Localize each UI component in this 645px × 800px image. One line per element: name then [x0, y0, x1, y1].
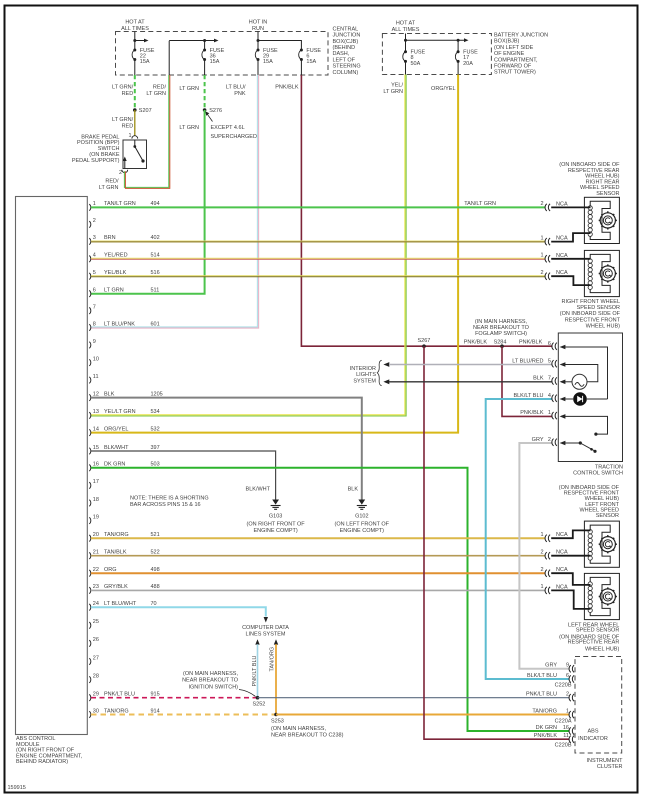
battery junction box BJB (dashed) [382, 34, 491, 75]
traction lamp symbol [572, 374, 587, 389]
svg-text:4: 4 [548, 393, 551, 399]
svg-text:COMPUTER DATA: COMPUTER DATA [242, 625, 289, 631]
svg-text:LT GRN/: LT GRN/ [112, 117, 134, 123]
svg-text:21: 21 [93, 550, 99, 556]
wire TAN/BLK 522 (ABS pin 21 to left front sensor pin 2) [91, 555, 546, 557]
wire LT BLU/WHT 70 (ABS pin 24 to computer data lines) [91, 607, 268, 622]
svg-text:(ON MAIN HARNESS,: (ON MAIN HARNESS, [271, 726, 326, 732]
left rear sensor label [559, 623, 620, 653]
svg-text:STRUT TOWER): STRUT TOWER) [494, 70, 536, 76]
arrow up PNK/LT BLU riser to computer data lines [252, 639, 260, 698]
svg-text:14: 14 [93, 426, 99, 432]
svg-text:20A: 20A [463, 61, 473, 67]
svg-text:ENGINE COMPT): ENGINE COMPT) [253, 528, 297, 534]
svg-text:15A: 15A [140, 59, 150, 65]
svg-text:9: 9 [93, 339, 96, 345]
label HOT IN RUN [249, 20, 268, 32]
left front sensor pin 2 connector and tail [540, 550, 590, 560]
BPP pin 1 connector [128, 133, 137, 139]
svg-text:GRY: GRY [532, 437, 544, 443]
wire TAN/ORG 914 dashed (ABS pin 30 to S253) [91, 714, 275, 716]
svg-text:S267: S267 [418, 338, 431, 344]
svg-text:ORG/YEL: ORG/YEL [431, 86, 455, 92]
svg-text:6: 6 [548, 341, 551, 347]
wire BLK/WHT 397 (ABS pin 15 to ground G103) [91, 451, 276, 500]
svg-text:FOGLAMP SWITCH): FOGLAMP SWITCH) [475, 331, 527, 337]
svg-text:3: 3 [93, 235, 96, 241]
svg-text:1: 1 [566, 708, 569, 714]
svg-text:13: 13 [93, 409, 99, 415]
svg-text:PNK/LT BLU: PNK/LT BLU [104, 692, 135, 698]
svg-text:RED/: RED/ [105, 178, 119, 184]
computer data lines system label [242, 625, 289, 637]
svg-text:RESPECTIVE REAR: RESPECTIVE REAR [568, 639, 620, 645]
svg-text:S276: S276 [209, 108, 222, 114]
splice S252 [253, 696, 266, 707]
wire ORG/YEL (fuse 17 to ABS pin 14) [91, 75, 458, 433]
svg-text:ALL TIMES: ALL TIMES [392, 27, 420, 33]
ABS pin 14 [89, 426, 159, 436]
svg-text:DK GRN: DK GRN [536, 725, 557, 731]
left rear sensor pin 2 connector and tail [540, 567, 590, 585]
instrument cluster dashed box [575, 657, 622, 754]
ABS pin 11 [89, 374, 98, 384]
right front sensor label [560, 299, 621, 330]
svg-text:YEL/RED: YEL/RED [104, 253, 128, 259]
cluster pin 6 BLK/LT BLU connector [527, 673, 574, 689]
svg-text:BLK: BLK [533, 376, 544, 382]
svg-text:BLK: BLK [104, 391, 115, 397]
svg-text:LT BLU/WHT: LT BLU/WHT [104, 601, 137, 607]
svg-text:YEL/LT GRN: YEL/LT GRN [104, 409, 136, 415]
svg-text:PNK/BLK: PNK/BLK [275, 85, 299, 91]
ABS pin 3 [89, 235, 159, 245]
svg-text:1: 1 [93, 201, 96, 207]
svg-text:SENSOR: SENSOR [596, 513, 619, 519]
traction pin 5 connector [512, 358, 565, 367]
wire LT BLU/PNK (fuse 29 to ABS pin 8) [91, 75, 259, 328]
ABS pin 4 [89, 253, 159, 263]
svg-text:S253: S253 [271, 719, 284, 725]
svg-text:27: 27 [93, 655, 99, 661]
svg-text:PNK/BLK: PNK/BLK [520, 410, 544, 416]
svg-text:PNK: PNK [234, 91, 246, 97]
right rear sensor label [559, 162, 620, 197]
ABS pin 8 [89, 321, 159, 331]
traction LED indicator symbol [573, 392, 587, 406]
svg-text:ENGINE COMPT): ENGINE COMPT) [340, 528, 384, 534]
ABS pin 16 [89, 462, 159, 472]
svg-text:HOT AT: HOT AT [396, 21, 416, 27]
svg-text:5: 5 [93, 270, 96, 276]
svg-text:COLUMN): COLUMN) [333, 70, 359, 76]
svg-text:1: 1 [548, 410, 551, 416]
ABS pin 7 [89, 305, 96, 315]
svg-text:BATTERY JUNCTION: BATTERY JUNCTION [494, 33, 548, 39]
traction pin 7 connector [533, 376, 565, 385]
left rear wheel speed sensor box [584, 573, 619, 619]
ABS pin 29 [89, 692, 159, 702]
svg-text:15A: 15A [306, 59, 316, 65]
svg-text:532: 532 [151, 426, 160, 432]
svg-text:1: 1 [128, 133, 131, 139]
diagram id 159915 [8, 785, 26, 791]
svg-text:LT GRN: LT GRN [179, 125, 199, 131]
svg-text:11: 11 [93, 374, 99, 380]
svg-text:1: 1 [540, 235, 543, 241]
svg-text:LT BLU/PNK: LT BLU/PNK [104, 321, 135, 327]
svg-text:(ON LEFT FRONT OF: (ON LEFT FRONT OF [335, 522, 390, 528]
interior lights system label with brace [350, 360, 382, 386]
svg-text:NOTE: THERE IS A SHORTING: NOTE: THERE IS A SHORTING [130, 496, 209, 502]
svg-text:(ON RIGHT FRONT OF: (ON RIGHT FRONT OF [247, 522, 306, 528]
svg-text:C220A: C220A [555, 719, 572, 725]
svg-text:2: 2 [548, 437, 551, 443]
ground G103 [247, 500, 306, 534]
ABS pin 17 [89, 479, 99, 489]
cluster pin 11 PNK/BLK connector [534, 733, 574, 749]
CJB label text [333, 26, 361, 75]
traction pin 6 connector [548, 341, 566, 350]
splice S284 on PNK/BLK [464, 339, 543, 348]
wire BLK/LT BLU (traction pin 4 to instrument cluster pin 6) [486, 399, 570, 679]
svg-text:STEERING: STEERING [333, 64, 361, 70]
svg-text:LEFT OF: LEFT OF [333, 57, 356, 63]
svg-text:26: 26 [93, 637, 99, 643]
svg-text:12: 12 [93, 391, 99, 397]
svg-text:RESPECTIVE FRONT: RESPECTIVE FRONT [565, 317, 621, 323]
wire LT GRN/RED dashed (fuse 22 to S207) [112, 75, 135, 109]
wire TAN/LT GRN 494 (ABS pin 1 to right rear sensor pin 2) [91, 201, 546, 207]
svg-text:5: 5 [548, 358, 551, 364]
svg-text:DK GRN: DK GRN [104, 462, 125, 468]
svg-text:70: 70 [151, 601, 157, 607]
wire TAN/ORG (S253 to instrument cluster pin 1) [276, 714, 570, 716]
svg-text:BOX(CJB): BOX(CJB) [333, 39, 359, 45]
svg-text:2: 2 [540, 201, 543, 207]
svg-text:LT GRN: LT GRN [99, 185, 119, 191]
svg-text:RED: RED [122, 124, 134, 130]
wire LT BLU/RED (traction pin 5 to interior lights, arrow) [383, 362, 552, 367]
svg-text:BRN: BRN [104, 235, 116, 241]
ABS pin 2 [89, 218, 96, 228]
svg-text:BLK/LT BLU: BLK/LT BLU [513, 393, 543, 399]
svg-text:16: 16 [93, 462, 99, 468]
left front wheel speed sensor label [559, 485, 620, 519]
svg-text:402: 402 [151, 235, 160, 241]
ABS pin 27 [89, 655, 99, 665]
svg-text:601: 601 [151, 321, 160, 327]
svg-text:18: 18 [93, 497, 99, 503]
svg-text:COMPARTMENT,: COMPARTMENT, [494, 57, 538, 63]
svg-text:TAN/ORG: TAN/ORG [104, 708, 129, 714]
svg-text:TAN/ORG: TAN/ORG [532, 708, 557, 714]
svg-text:PNK/LT BLU: PNK/LT BLU [252, 655, 258, 686]
wire PNK/BLK (S267 down to instrument cluster pin 11) [424, 346, 570, 739]
svg-text:TAN/ORG: TAN/ORG [104, 532, 129, 538]
svg-text:6: 6 [566, 673, 569, 679]
cluster pin 9 GRY connector [545, 663, 574, 673]
svg-text:ABS: ABS [587, 729, 598, 735]
wire BLK 1205 (ABS pin 12 to ground G102) [91, 398, 362, 500]
svg-text:LINES SYSTEM: LINES SYSTEM [245, 632, 285, 638]
svg-text:SPEED SENSOR: SPEED SENSOR [577, 305, 620, 311]
svg-text:OF ENGINE: OF ENGINE [494, 51, 525, 57]
wire ORG 498 (ABS pin 22 to left rear sensor pin 2) [91, 572, 546, 574]
BJB label text [494, 33, 548, 76]
svg-text:RED/: RED/ [153, 85, 167, 91]
svg-text:534: 534 [151, 409, 160, 415]
svg-text:488: 488 [151, 584, 160, 590]
traction pin 1 connector [520, 410, 565, 419]
svg-text:INDICATOR: INDICATOR [578, 736, 608, 742]
label on main harness near breakout to ignition switch with leader [182, 671, 255, 697]
svg-text:WHEEL HUB): WHEEL HUB) [585, 647, 619, 653]
svg-text:915: 915 [151, 692, 160, 698]
svg-text:CONTROL SWITCH: CONTROL SWITCH [573, 471, 623, 477]
ABS pin 21 [89, 550, 159, 560]
fuse 17 20A [455, 50, 478, 75]
svg-text:S207: S207 [139, 108, 152, 114]
svg-text:(ON MAIN HARNESS,: (ON MAIN HARNESS, [183, 671, 238, 677]
ABS pin 23 [89, 584, 159, 594]
svg-text:LT GRN: LT GRN [146, 91, 166, 97]
wire LT GRN/RED (S207 to BPP pin 1) [112, 110, 135, 136]
wire BLK (traction pin 7 to interior lights, arrow) [383, 379, 552, 384]
svg-text:8: 8 [93, 321, 96, 327]
splice S253 [271, 713, 344, 739]
ABS pin 25 [89, 619, 99, 629]
svg-text:1205: 1205 [151, 391, 163, 397]
svg-text:25: 25 [93, 619, 99, 625]
svg-text:19: 19 [93, 514, 99, 520]
arrow up TAN/ORG riser to computer data lines [270, 639, 279, 714]
svg-text:511: 511 [151, 288, 160, 294]
bus wire hot-at-all-times with arrow (fuse 22 feed) [133, 32, 148, 50]
ABS pin 28 [89, 673, 99, 683]
svg-text:TAN/LT GRN: TAN/LT GRN [104, 201, 136, 207]
ABS pin 24 [89, 601, 156, 611]
svg-text:PNK/BLK: PNK/BLK [534, 733, 558, 739]
svg-text:30: 30 [93, 708, 99, 714]
svg-text:4: 4 [93, 253, 96, 259]
svg-text:LT BLU/RED: LT BLU/RED [512, 358, 543, 364]
svg-text:TAN/BLK: TAN/BLK [104, 550, 127, 556]
wire YEL/LT GRN (fuse 8 to ABS pin 13) [91, 75, 406, 417]
svg-text:24: 24 [93, 601, 99, 607]
svg-text:SYSTEM: SYSTEM [353, 378, 376, 384]
traction internal wiring [561, 347, 608, 443]
BPP pin 2 connector [119, 170, 128, 176]
svg-text:17: 17 [93, 479, 99, 485]
svg-text:(IN MAIN HARNESS,: (IN MAIN HARNESS, [475, 319, 528, 325]
svg-text:BLK/WHT: BLK/WHT [104, 445, 129, 451]
svg-text:JUNCTION: JUNCTION [333, 33, 361, 39]
ABS control module label [16, 736, 83, 765]
svg-text:SPEED SENSOR: SPEED SENSOR [576, 628, 619, 634]
svg-text:159915: 159915 [8, 785, 26, 791]
svg-text:2: 2 [566, 691, 569, 697]
svg-text:1: 1 [540, 253, 543, 259]
svg-text:TAN/LT GRN: TAN/LT GRN [464, 201, 496, 207]
fuse 29 15A [255, 48, 278, 75]
wire YEL/BLK 516 (ABS pin 5 to right front sensor pin 2) [91, 276, 546, 277]
svg-text:ALL TIMES: ALL TIMES [121, 26, 149, 32]
svg-text:LT BLU/: LT BLU/ [226, 85, 246, 91]
wire BRN 402 (ABS pin 3 to right rear sensor pin 1) [91, 240, 546, 243]
svg-text:28: 28 [93, 673, 99, 679]
label HOT AT ALL TIMES (right) [392, 21, 420, 33]
svg-text:BEHIND RADIATOR): BEHIND RADIATOR) [16, 759, 68, 765]
central junction box CJB (dashed) [116, 32, 329, 76]
svg-text:TAN/ORG: TAN/ORG [270, 647, 276, 672]
left front wheel speed sensor box [584, 521, 619, 567]
left rear sensor pin 1 connector and tail [540, 584, 590, 609]
svg-text:LT GRN: LT GRN [104, 288, 124, 294]
note shorting bar pins 15 and 16 [130, 496, 209, 508]
svg-text:DASH,: DASH, [333, 51, 350, 57]
BPP switch label [72, 134, 120, 164]
ABS pin 13 [89, 409, 159, 419]
svg-text:BLK: BLK [348, 486, 359, 492]
svg-text:22: 22 [93, 567, 99, 573]
ABS pin 19 [89, 514, 99, 524]
svg-text:521: 521 [151, 532, 160, 538]
splice S207 [133, 108, 152, 114]
svg-text:GRY/BLK: GRY/BLK [104, 584, 128, 590]
svg-text:ORG: ORG [104, 567, 117, 573]
svg-text:BAR ACROSS PINS 15 & 16: BAR ACROSS PINS 15 & 16 [130, 502, 201, 508]
svg-text:2: 2 [540, 567, 543, 573]
traction switch contacts [579, 433, 598, 453]
label in main harness near breakout to foglamp switch [473, 319, 530, 337]
svg-text:BOX(BJB): BOX(BJB) [494, 39, 520, 45]
right rear sensor pin 2 connector and tail [540, 201, 590, 211]
svg-text:503: 503 [151, 462, 160, 468]
svg-text:9: 9 [566, 663, 569, 669]
splice S276 [203, 108, 222, 114]
svg-text:516: 516 [151, 270, 160, 276]
cluster pin 1 TAN/ORG connector [532, 708, 574, 724]
svg-text:EXCEPT 4.6L: EXCEPT 4.6L [211, 125, 245, 131]
ground G102 [335, 500, 390, 534]
svg-text:CLUSTER: CLUSTER [597, 764, 623, 770]
ABS pin 20 [89, 532, 159, 542]
svg-text:ORG/YEL: ORG/YEL [104, 426, 128, 432]
wire TAN/ORG 521 (ABS pin 20 to left front sensor pin 1) [91, 537, 546, 539]
svg-text:C220B: C220B [555, 743, 572, 749]
ABS pin 26 [89, 637, 99, 647]
svg-text:2: 2 [540, 270, 543, 276]
svg-text:7: 7 [93, 305, 96, 311]
svg-text:BLK/WHT: BLK/WHT [246, 486, 271, 492]
ABS pin 9 [89, 339, 96, 349]
svg-text:NEAR BREAKOUT TO: NEAR BREAKOUT TO [473, 325, 530, 331]
svg-text:PNK/LT BLU: PNK/LT BLU [526, 691, 557, 697]
traction control switch box [558, 333, 623, 477]
fuse 22 15A [132, 48, 155, 75]
svg-text:HOT IN: HOT IN [249, 20, 268, 26]
cluster pin 2 PNK/LT BLU connector [526, 691, 574, 701]
right front wheel speed sensor box [584, 250, 619, 296]
traction pin 4 connector [513, 393, 565, 402]
svg-text:S284: S284 [494, 339, 507, 345]
svg-text:LT GRN: LT GRN [179, 86, 199, 92]
cluster pin 16 DK GRN connector [536, 725, 574, 735]
svg-text:S252: S252 [253, 701, 266, 707]
svg-text:(ON LEFT SIDE: (ON LEFT SIDE [494, 45, 534, 51]
svg-text:1: 1 [540, 584, 543, 590]
svg-text:PEDAL SUPPORT): PEDAL SUPPORT) [72, 158, 120, 164]
wire RED/LT GRN (BPP pin 2 up to bus, two-tone) [99, 41, 170, 191]
svg-text:SENSOR: SENSOR [596, 191, 619, 197]
wire PNK/BLK (fuse 6 to traction control switch pin 6) [275, 75, 552, 346]
svg-text:(ON INBOARD SIDE OF: (ON INBOARD SIDE OF [560, 311, 621, 317]
svg-text:2: 2 [93, 218, 96, 224]
svg-text:20: 20 [93, 532, 99, 538]
ABS pin 6 [89, 288, 159, 298]
svg-text:LT GRN/: LT GRN/ [112, 85, 134, 91]
ABS pin 22 [89, 567, 159, 577]
svg-text:G102: G102 [355, 514, 368, 520]
svg-text:LT GRN: LT GRN [383, 89, 403, 95]
ABS pin 15 [89, 445, 159, 455]
right rear wheel speed sensor box [584, 197, 619, 243]
svg-text:494: 494 [151, 201, 160, 207]
wire PNK/LT BLU 915 dashed (ABS pin 29 to S252) [91, 697, 257, 699]
svg-text:397: 397 [151, 445, 160, 451]
svg-text:2: 2 [540, 550, 543, 556]
ABS pin 12 [89, 391, 162, 401]
svg-text:YEL/: YEL/ [391, 83, 403, 89]
fuse 36 15A [202, 48, 225, 75]
wire LT GRN dashed (fuse 36 to S276) [179, 75, 204, 109]
svg-text:SUPERCHARGED: SUPERCHARGED [211, 134, 257, 140]
svg-text:IGNITION SWITCH): IGNITION SWITCH) [189, 684, 239, 690]
svg-text:NEAR BREAKOUT TO C238): NEAR BREAKOUT TO C238) [271, 733, 344, 739]
wire YEL/RED 514 (ABS pin 4 to right front sensor pin 1) [91, 258, 546, 259]
splice S267 on PNK/BLK [418, 338, 431, 348]
fuse 8 50A [403, 50, 426, 75]
svg-text:CENTRAL: CENTRAL [333, 26, 359, 32]
fuse 6 15A [299, 48, 322, 75]
svg-text:15A: 15A [210, 59, 220, 65]
wire GRY (traction pin 2 to instrument cluster pin 9) [519, 443, 569, 669]
svg-text:23: 23 [93, 584, 99, 590]
svg-text:PNK/BLK: PNK/BLK [519, 340, 543, 346]
left front sensor pin 1 connector and tail [540, 530, 590, 541]
svg-text:BLK/LT BLU: BLK/LT BLU [527, 673, 557, 679]
svg-text:HOT AT: HOT AT [125, 20, 145, 26]
svg-text:FORWARD OF: FORWARD OF [494, 64, 532, 70]
svg-text:C220B: C220B [555, 682, 572, 688]
right rear sensor pin 1 connector and tail [540, 233, 590, 245]
svg-text:(BEHIND: (BEHIND [333, 45, 356, 51]
svg-text:15A: 15A [263, 59, 273, 65]
ABS pin 10 [89, 356, 99, 366]
svg-text:RED: RED [122, 91, 134, 97]
svg-text:11: 11 [563, 733, 569, 739]
svg-text:GRY: GRY [545, 663, 557, 669]
svg-text:INTERIOR: INTERIOR [350, 366, 376, 372]
ABS control module box [16, 197, 88, 735]
svg-text:PNK/BLK: PNK/BLK [464, 340, 488, 346]
svg-text:YEL/BLK: YEL/BLK [104, 270, 127, 276]
bus wire hot-in-run (fuse 29 / fuse 6) [257, 32, 302, 50]
svg-text:1: 1 [540, 532, 543, 538]
ABS pin 5 [89, 270, 159, 280]
svg-text:914: 914 [151, 708, 160, 714]
